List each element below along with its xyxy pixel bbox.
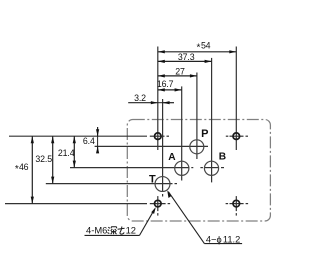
callout 4-M6 depth 12 (leader to bottom-left bolt) bbox=[85, 207, 156, 236]
svg-text:54: 54 bbox=[201, 40, 211, 50]
extension line right datum (x=236.3) bbox=[235, 47, 237, 151]
port hole A bbox=[175, 161, 189, 175]
svg-text:37.3: 37.3 bbox=[178, 52, 195, 62]
centerline bottom bolt row (y=203.6) bbox=[5, 203, 248, 205]
svg-text:27: 27 bbox=[175, 67, 185, 77]
dimension 27 bbox=[158, 67, 197, 78]
dimension *54 bbox=[158, 40, 237, 53]
svg-text:4-M6: 4-M6 bbox=[86, 225, 107, 236]
callout 4-phi11.2 (leader to port T) bbox=[167, 190, 242, 244]
extension line port B (x=211.6) bbox=[211, 58, 213, 182]
svg-text:T: T bbox=[149, 174, 156, 186]
centerline top bolt row (y=136.2) bbox=[9, 135, 248, 137]
bolt hole M6 bottom-left bbox=[155, 200, 162, 207]
svg-text:A: A bbox=[168, 152, 176, 163]
bolt hole M6 bottom-right bbox=[233, 200, 240, 207]
dimension 16.7 bbox=[157, 79, 182, 91]
svg-text:3.2: 3.2 bbox=[134, 93, 146, 103]
extension line port P (x=196.9) bbox=[196, 73, 198, 160]
svg-text:*: * bbox=[15, 164, 19, 175]
valve body outline (phantom chain line, rounded rectangle) bbox=[127, 120, 270, 222]
svg-text:12: 12 bbox=[126, 225, 136, 236]
svg-text:B: B bbox=[219, 152, 226, 163]
extension line left datum (x=157.8) bbox=[157, 47, 159, 151]
dimension 37.3 bbox=[158, 52, 212, 63]
dimension 6.4 (outside arrows) bbox=[83, 127, 99, 153]
dimension *46 bbox=[15, 136, 34, 203]
svg-text:6.4: 6.4 bbox=[83, 136, 95, 146]
bolt hole M6 top-right bbox=[233, 133, 240, 140]
svg-text:16.7: 16.7 bbox=[157, 79, 174, 89]
port hole P bbox=[190, 140, 204, 154]
port hole B bbox=[204, 161, 218, 175]
svg-text:*: * bbox=[197, 43, 201, 54]
centerline ports A-B row (y=167.6) bbox=[70, 167, 224, 169]
kana sa drawn strokes bbox=[118, 227, 125, 235]
svg-text:P: P bbox=[201, 128, 208, 140]
extension line port T (x=162.6) bbox=[162, 99, 164, 197]
kanji fuka (depth) drawn strokes bbox=[107, 227, 116, 235]
dimension 32.5 bbox=[35, 136, 54, 183]
extension line port A (x=181.7) bbox=[181, 86, 183, 180]
svg-text:32.5: 32.5 bbox=[35, 154, 52, 164]
svg-text:21.4: 21.4 bbox=[58, 148, 75, 158]
centerline port P row (y=146.4) bbox=[95, 145, 208, 147]
dimension 3.2 (outside arrows) bbox=[128, 93, 174, 104]
bolt hole M6 top-left bbox=[155, 133, 162, 140]
centerline port T row (y=183.6) bbox=[46, 183, 177, 185]
port hole T bbox=[155, 177, 170, 192]
svg-text:46: 46 bbox=[19, 162, 29, 172]
centerline bottom-left bolt vertical bbox=[157, 196, 159, 216]
dimension 21.4 bbox=[58, 136, 76, 167]
centerline bottom-right bolt vertical bbox=[235, 196, 237, 216]
